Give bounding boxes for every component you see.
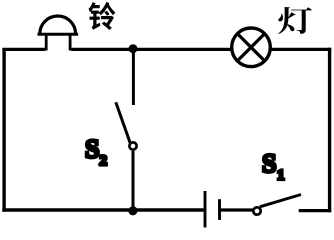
label 灯 (lamp) xyxy=(278,7,312,34)
wire: bottom-left segment (left corner to battery) xyxy=(2,208,203,212)
wire: middle branch upper (junction to switch S2 contact) xyxy=(132,50,135,105)
switch S2 (open blade and pivot) xyxy=(116,102,137,149)
node: bottom junction xyxy=(128,206,137,215)
wire: left side xyxy=(2,48,5,212)
label 铃 (bell) xyxy=(89,2,116,30)
node: top junction xyxy=(129,44,138,53)
switch S1 (open pivot and blade) xyxy=(253,195,301,215)
wire: bottom-right stub (S1 fixed contact to corner) xyxy=(299,209,332,212)
wire: right side xyxy=(328,48,331,213)
wire: middle branch lower (S2 pivot to bottom junction) xyxy=(132,151,135,212)
wire: top middle segment (bell to lamp) xyxy=(71,48,231,51)
svg-text:1: 1 xyxy=(277,168,285,184)
battery (cell): short plate xyxy=(218,199,221,220)
svg-text:S: S xyxy=(262,149,276,178)
wire: top-right segment (lamp to corner) xyxy=(271,48,332,51)
lamp symbol xyxy=(232,28,271,67)
wire: battery to switch S1 xyxy=(221,208,253,211)
wire: top-left segment (corner to bell neck) xyxy=(2,48,45,51)
svg-text:S: S xyxy=(85,135,99,164)
battery (cell): long plate xyxy=(204,191,207,228)
electric bell symbol xyxy=(38,16,79,50)
svg-text:2: 2 xyxy=(100,153,108,169)
